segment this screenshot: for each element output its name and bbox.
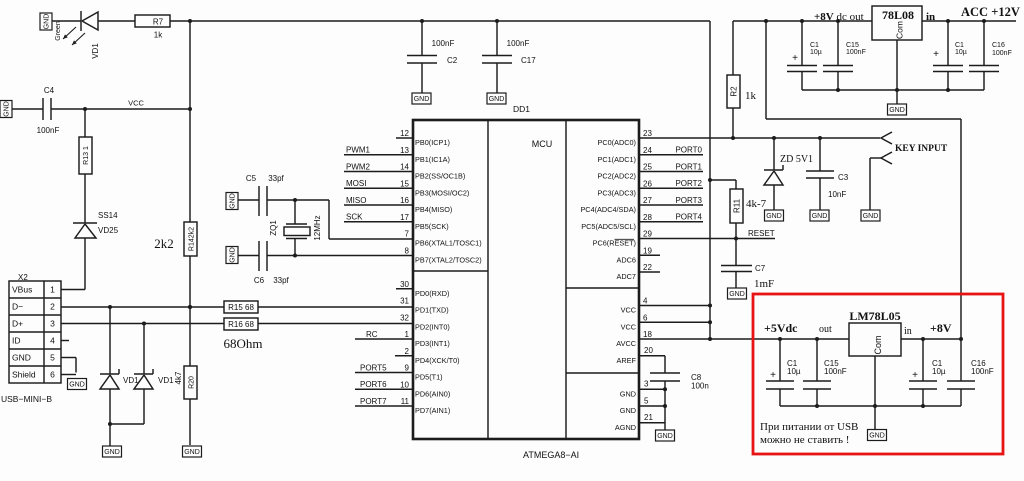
- svg-text:GND: GND: [620, 389, 636, 398]
- svg-text:AGND: AGND: [615, 423, 636, 432]
- svg-text:PD7(AIN1): PD7(AIN1): [415, 406, 450, 415]
- svg-text:2: 2: [50, 302, 55, 312]
- svg-text:C1: C1: [810, 42, 819, 49]
- svg-text:2k2: 2k2: [154, 236, 174, 251]
- svg-text:PORT4: PORT4: [675, 213, 702, 222]
- svg-text:PB3(MOSI/OC2): PB3(MOSI/OC2): [415, 188, 469, 197]
- svg-text:DD1: DD1: [513, 104, 530, 114]
- svg-text:in: in: [904, 326, 912, 337]
- svg-text:KEY INPUT: KEY INPUT: [895, 144, 948, 154]
- svg-text:68Ohm: 68Ohm: [224, 336, 263, 351]
- svg-text:R16 68: R16 68: [228, 320, 254, 329]
- svg-text:5: 5: [50, 353, 55, 363]
- svg-text:10µ: 10µ: [955, 49, 967, 56]
- svg-text:PD1(TXD): PD1(TXD): [415, 306, 449, 315]
- svg-text:GND: GND: [414, 96, 430, 103]
- svg-text:GND: GND: [889, 107, 905, 114]
- svg-text:100nF: 100nF: [971, 367, 994, 376]
- svg-text:33pf: 33pf: [268, 174, 284, 183]
- svg-text:+: +: [933, 49, 939, 60]
- svg-text:VD1: VD1: [158, 376, 174, 385]
- svg-text:10µ: 10µ: [932, 367, 946, 376]
- svg-text:1k: 1k: [154, 31, 163, 40]
- svg-text:78L08: 78L08: [882, 8, 914, 22]
- svg-text:+8V dc out: +8V dc out: [814, 11, 864, 23]
- svg-text:GND: GND: [869, 433, 885, 440]
- svg-text:GND: GND: [812, 213, 828, 220]
- svg-text:C2: C2: [447, 56, 458, 65]
- svg-text:100n: 100n: [691, 382, 709, 391]
- svg-text:GND: GND: [620, 406, 636, 415]
- svg-text:R11: R11: [733, 198, 742, 213]
- svg-text:16: 16: [400, 196, 409, 205]
- svg-text:PC6(RESET): PC6(RESET): [593, 239, 636, 248]
- svg-text:PD5(T1): PD5(T1): [415, 373, 443, 382]
- svg-text:GND: GND: [489, 96, 505, 103]
- svg-text:ID: ID: [12, 336, 21, 346]
- svg-text:D−: D−: [12, 302, 23, 312]
- svg-text:можно не ставить !: можно не ставить !: [760, 434, 849, 446]
- svg-text:26: 26: [643, 179, 652, 188]
- svg-text:+: +: [770, 370, 776, 381]
- svg-text:100nF: 100nF: [846, 49, 866, 56]
- svg-text:2: 2: [405, 347, 410, 356]
- svg-text:33pf: 33pf: [273, 276, 289, 285]
- svg-text:PORT3: PORT3: [675, 196, 702, 205]
- svg-text:6: 6: [643, 313, 648, 322]
- svg-text:PORT1: PORT1: [675, 162, 702, 171]
- svg-text:ACC +12V: ACC +12V: [961, 5, 1020, 19]
- svg-text:VD25: VD25: [98, 226, 119, 235]
- svg-text:PD3(INT1): PD3(INT1): [415, 339, 450, 348]
- svg-text:1: 1: [405, 330, 410, 339]
- svg-text:PWM1: PWM1: [346, 146, 371, 155]
- svg-text:GND: GND: [863, 213, 879, 220]
- svg-text:GND: GND: [12, 353, 31, 363]
- svg-text:R2: R2: [730, 86, 739, 97]
- svg-text:4: 4: [50, 336, 55, 346]
- svg-text:При питании от USB: При питании от USB: [760, 421, 858, 433]
- svg-text:23: 23: [643, 129, 652, 138]
- svg-text:PB2(SS/OC1B): PB2(SS/OC1B): [415, 172, 465, 181]
- svg-text:12MHz: 12MHz: [313, 215, 322, 240]
- svg-text:ZQ1: ZQ1: [269, 220, 278, 236]
- svg-text:GND: GND: [230, 247, 237, 263]
- svg-text:MOSI: MOSI: [346, 179, 366, 188]
- svg-text:10µ: 10µ: [810, 49, 822, 56]
- svg-text:28: 28: [643, 213, 652, 222]
- svg-text:ADC7: ADC7: [617, 272, 636, 281]
- svg-text:Com: Com: [873, 335, 883, 354]
- svg-text:PORT7: PORT7: [360, 397, 387, 406]
- svg-text:12: 12: [400, 129, 409, 138]
- svg-text:18: 18: [643, 330, 652, 339]
- svg-text:1mF: 1mF: [754, 278, 774, 290]
- svg-text:C3: C3: [838, 173, 849, 182]
- svg-text:RC: RC: [366, 330, 378, 339]
- svg-text:C7: C7: [755, 264, 766, 273]
- svg-text:GND: GND: [729, 291, 745, 298]
- svg-text:PD4(XCK/T0): PD4(XCK/T0): [415, 356, 460, 365]
- svg-text:10µ: 10µ: [787, 367, 801, 376]
- svg-text:8: 8: [405, 246, 410, 255]
- svg-text:GND: GND: [44, 14, 51, 30]
- svg-text:SS14: SS14: [98, 211, 118, 220]
- svg-text:AVCC: AVCC: [616, 339, 636, 348]
- svg-text:4k7: 4k7: [174, 371, 183, 384]
- svg-text:100nF: 100nF: [432, 39, 455, 48]
- svg-text:GND: GND: [657, 433, 673, 440]
- svg-text:GND: GND: [4, 101, 11, 117]
- svg-text:PORT0: PORT0: [675, 146, 702, 155]
- svg-text:X2: X2: [18, 273, 28, 282]
- svg-text:1: 1: [50, 285, 55, 295]
- svg-text:10: 10: [400, 380, 409, 389]
- svg-text:29: 29: [643, 230, 652, 239]
- svg-text:15: 15: [400, 179, 409, 188]
- svg-text:MISO: MISO: [346, 196, 366, 205]
- svg-text:out: out: [819, 324, 832, 335]
- svg-text:RESET: RESET: [748, 229, 775, 238]
- svg-text:22: 22: [643, 263, 652, 272]
- svg-text:PORT2: PORT2: [675, 179, 702, 188]
- svg-text:5: 5: [644, 396, 649, 405]
- svg-text:PB6(XTAL1/TOSC1): PB6(XTAL1/TOSC1): [415, 239, 482, 248]
- svg-text:11: 11: [401, 397, 410, 406]
- svg-text:6: 6: [50, 370, 55, 380]
- svg-text:PORT6: PORT6: [360, 380, 387, 389]
- svg-text:GND: GND: [184, 449, 200, 456]
- svg-text:SCK: SCK: [346, 213, 363, 222]
- svg-text:GND: GND: [230, 193, 237, 209]
- svg-text:USB−MINI−B: USB−MINI−B: [1, 394, 52, 404]
- svg-text:R13 1: R13 1: [83, 146, 90, 165]
- svg-text:PB0(ICP1): PB0(ICP1): [415, 138, 450, 147]
- svg-text:31: 31: [400, 297, 409, 306]
- svg-text:GND: GND: [104, 449, 120, 456]
- svg-text:C15: C15: [846, 42, 859, 49]
- svg-text:in: in: [926, 11, 935, 23]
- svg-text:PC2(ADC2): PC2(ADC2): [597, 172, 636, 181]
- svg-text:PC5(ADC5/SCL): PC5(ADC5/SCL): [581, 222, 636, 231]
- svg-text:C4: C4: [44, 86, 55, 95]
- svg-text:GND: GND: [766, 213, 782, 220]
- svg-text:1k: 1k: [745, 90, 757, 102]
- svg-text:32: 32: [400, 313, 409, 322]
- svg-text:C1: C1: [955, 42, 964, 49]
- svg-text:100nF: 100nF: [824, 367, 847, 376]
- svg-text:LM78L05: LM78L05: [849, 309, 900, 323]
- svg-text:AREF: AREF: [617, 356, 637, 365]
- svg-text:PC4(ADC4/SDA): PC4(ADC4/SDA): [580, 205, 636, 214]
- svg-text:PD6(AIN0): PD6(AIN0): [415, 389, 450, 398]
- svg-text:100nF: 100nF: [992, 50, 1012, 57]
- svg-text:Green: Green: [55, 21, 62, 41]
- svg-text:19: 19: [643, 246, 652, 255]
- svg-text:ZD 5V1: ZD 5V1: [780, 154, 813, 165]
- svg-text:14: 14: [400, 163, 409, 172]
- svg-text:PB5(SCK): PB5(SCK): [415, 222, 449, 231]
- svg-text:4k-7: 4k-7: [746, 198, 767, 210]
- svg-text:+: +: [912, 370, 918, 381]
- svg-text:R20: R20: [189, 376, 196, 389]
- svg-text:VD1: VD1: [123, 376, 139, 385]
- svg-text:+: +: [792, 53, 798, 64]
- svg-text:PC1(ADC1): PC1(ADC1): [597, 155, 636, 164]
- svg-text:100nF: 100nF: [507, 39, 530, 48]
- svg-text:PC0(ADC0): PC0(ADC0): [597, 138, 636, 147]
- svg-text:R142k2: R142k2: [189, 227, 196, 251]
- svg-text:C17: C17: [521, 56, 536, 65]
- svg-text:D+: D+: [12, 319, 23, 329]
- svg-text:R7: R7: [153, 18, 164, 27]
- svg-text:20: 20: [644, 346, 653, 355]
- svg-text:17: 17: [400, 213, 409, 222]
- svg-text:VCC: VCC: [128, 99, 144, 108]
- svg-text:PD0(RXD): PD0(RXD): [415, 289, 449, 298]
- svg-text:VBus: VBus: [12, 285, 32, 295]
- svg-text:3: 3: [50, 319, 55, 329]
- svg-text:VCC: VCC: [621, 306, 636, 315]
- svg-text:Shield: Shield: [12, 370, 36, 380]
- svg-text:9: 9: [405, 364, 410, 373]
- svg-text:25: 25: [643, 163, 652, 172]
- svg-text:PB4(MISO): PB4(MISO): [415, 205, 452, 214]
- svg-text:PB1(IC1A): PB1(IC1A): [415, 155, 450, 164]
- svg-text:10nF: 10nF: [828, 190, 846, 199]
- svg-text:3: 3: [644, 380, 649, 389]
- svg-text:+8V: +8V: [930, 321, 952, 335]
- svg-text:C16: C16: [992, 42, 1005, 49]
- svg-text:27: 27: [643, 196, 652, 205]
- svg-text:MCU: MCU: [532, 139, 553, 149]
- svg-text:VD1: VD1: [91, 43, 100, 59]
- svg-text:100nF: 100nF: [37, 126, 60, 135]
- svg-text:PORT5: PORT5: [360, 363, 387, 372]
- svg-text:ATMEGA8−AI: ATMEGA8−AI: [523, 450, 579, 460]
- svg-text:Com: Com: [895, 21, 905, 39]
- svg-text:R15 68: R15 68: [228, 303, 254, 312]
- svg-text:+5Vdc: +5Vdc: [764, 321, 798, 335]
- svg-text:24: 24: [643, 146, 652, 155]
- svg-text:ADC6: ADC6: [617, 255, 636, 264]
- svg-text:PD2(INT0): PD2(INT0): [415, 322, 450, 331]
- svg-text:GND: GND: [69, 382, 85, 389]
- svg-text:C6: C6: [254, 276, 265, 285]
- svg-text:7: 7: [405, 230, 410, 239]
- svg-text:VCC: VCC: [621, 322, 636, 331]
- svg-text:13: 13: [400, 146, 409, 155]
- svg-text:4: 4: [643, 297, 648, 306]
- svg-text:PC3(ADC3): PC3(ADC3): [597, 188, 636, 197]
- svg-text:PWM2: PWM2: [346, 162, 371, 171]
- svg-text:30: 30: [400, 280, 409, 289]
- svg-text:21: 21: [644, 413, 653, 422]
- svg-text:C5: C5: [246, 174, 257, 183]
- svg-text:PB7(XTAL2/TOSC2): PB7(XTAL2/TOSC2): [415, 255, 482, 264]
